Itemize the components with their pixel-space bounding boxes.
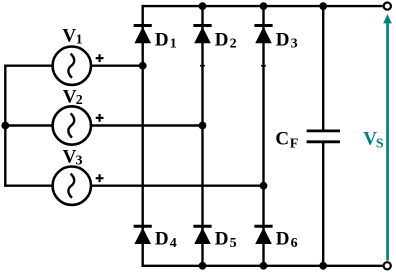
svg-text:1: 1 [170, 37, 177, 52]
diode D4 [134, 226, 152, 244]
VS arrow [383, 14, 392, 261]
wire capacitor branch upper [322, 6, 324, 131]
plus sign of V1 [96, 54, 104, 62]
capacitor CF plates [307, 131, 340, 142]
wire column 3 (D3/D6 branch) [262, 6, 264, 267]
diode D3 [254, 26, 272, 44]
svg-text:5: 5 [230, 236, 237, 251]
label V2 [63, 86, 83, 108]
source V1 [53, 46, 91, 84]
svg-text:V: V [63, 86, 77, 107]
label VS [363, 128, 384, 151]
svg-text:D: D [276, 229, 290, 250]
wire V1 row right segment [92, 64, 143, 66]
wire top bus [143, 5, 383, 7]
svg-text:D: D [155, 29, 169, 50]
svg-text:D: D [215, 229, 229, 250]
svg-text:D: D [215, 29, 229, 50]
plus sign of V3 [96, 174, 104, 182]
svg-text:6: 6 [291, 236, 298, 251]
junction dot left bus / V2 row [1, 122, 9, 130]
diode D1 [134, 26, 152, 44]
tick col3 V1 row [261, 65, 266, 67]
junction dot bottom bus / capacitor [319, 262, 327, 270]
tick col2 V1 row [200, 65, 205, 67]
source V3 [53, 167, 91, 205]
svg-text:4: 4 [170, 236, 177, 251]
svg-text:3: 3 [76, 153, 83, 168]
svg-text:1: 1 [76, 32, 83, 47]
plus sign of V2 [96, 114, 104, 122]
junction dot col1 / V1 row [139, 62, 147, 70]
svg-text:V: V [62, 25, 76, 46]
wire capacitor branch lower [322, 142, 324, 266]
junction dot top bus / col2 [199, 2, 207, 10]
wire bottom bus [143, 265, 383, 267]
junction dot col2 / V2 row [199, 122, 207, 130]
wire V2 row right segment [92, 124, 203, 126]
svg-text:C: C [275, 128, 289, 149]
svg-text:3: 3 [291, 37, 298, 52]
label CF [275, 128, 298, 151]
label D1 [155, 29, 177, 51]
wire V1 row left segment [4, 64, 52, 66]
junction dot bottom bus / col3 [260, 262, 268, 270]
label D4 [155, 229, 177, 251]
label V1 [62, 25, 82, 47]
wire left vertical bus [4, 66, 6, 186]
source V2 [53, 106, 91, 144]
label D3 [276, 29, 298, 51]
svg-text:F: F [290, 137, 299, 152]
wire V2 row left segment [4, 124, 52, 126]
label D2 [215, 29, 237, 51]
svg-text:D: D [276, 29, 290, 50]
junction dot bottom bus / col2 [199, 262, 207, 270]
terminal top right [384, 3, 391, 10]
svg-text:2: 2 [230, 37, 237, 52]
junction dot top bus / capacitor [319, 2, 327, 10]
svg-text:D: D [155, 229, 169, 250]
wire V3 row left segment [4, 184, 52, 186]
label D6 [276, 229, 298, 251]
diode D6 [254, 226, 272, 244]
svg-text:2: 2 [76, 93, 83, 108]
svg-text:S: S [376, 137, 384, 152]
diode D5 [193, 226, 211, 244]
wire column 2 (D2/D5 branch) [201, 6, 203, 267]
junction dot col3 / V3 row [260, 182, 268, 190]
wire V3 row right segment [92, 184, 264, 186]
label V3 [63, 146, 83, 168]
svg-text:V: V [63, 146, 77, 167]
diode D2 [193, 26, 211, 44]
junction dot top bus / col3 [260, 2, 268, 10]
terminal bottom right [384, 262, 391, 269]
label D5 [215, 229, 237, 251]
wire column 1 (D1/D4 branch) [141, 5, 143, 267]
